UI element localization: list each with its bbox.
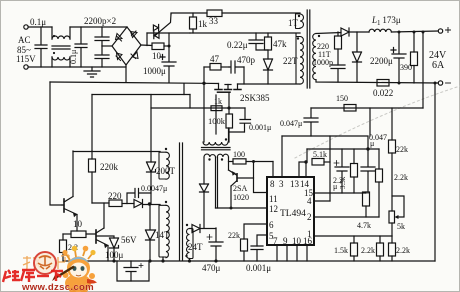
svg-text:7: 7 <box>273 236 278 246</box>
pin 14 wire <box>305 162 307 177</box>
capacitor 100u <box>117 261 149 281</box>
ground <box>84 67 100 77</box>
polarity dot choke top <box>53 35 55 37</box>
svg-text:2: 2 <box>307 212 312 222</box>
pin 8 wire <box>272 162 274 178</box>
svg-text:22k: 22k <box>396 145 408 154</box>
pin 3 wire <box>281 136 283 177</box>
wire gate drop <box>228 92 230 114</box>
wire cap midpoint to bridge <box>102 45 112 47</box>
diode lower (to bus) <box>146 204 156 240</box>
transformer T1 primary winding 1T <box>296 13 301 29</box>
transformer T2 secondary a <box>204 154 216 157</box>
riser x190 <box>189 95 191 109</box>
svg-text:100μ: 100μ <box>105 250 124 260</box>
output terminal minus <box>438 81 442 85</box>
wire y136 ref bus <box>282 136 368 149</box>
svg-text:0.001μ: 0.001μ <box>246 263 271 273</box>
svg-text:0.0047μ: 0.0047μ <box>141 184 167 193</box>
resistor 220 clamp <box>109 200 122 207</box>
bridge rectifier <box>112 27 141 65</box>
transformer T1 bottom core <box>180 143 183 260</box>
svg-text:10: 10 <box>152 51 162 61</box>
common-mode choke L <box>52 27 70 67</box>
transformer T1 winding 24T <box>187 229 190 259</box>
riser x184 <box>183 84 185 95</box>
bridge diode 1 <box>131 31 138 38</box>
wire top switching rail y13 <box>171 13 207 14</box>
wire output minus rail <box>377 82 438 85</box>
transformer T1 secondary 220-11T <box>313 34 316 80</box>
svg-text:2200μ: 2200μ <box>370 56 393 66</box>
svg-text:2SK385: 2SK385 <box>240 93 270 103</box>
capacitor 0.001u upper <box>240 108 251 132</box>
char yi <box>37 275 49 277</box>
wire x92 drop <box>91 95 93 152</box>
wire pin12 row <box>216 207 268 209</box>
transformer T2 core <box>202 148 231 150</box>
pin 2 wire <box>314 216 379 218</box>
wire source row y83 <box>50 82 219 84</box>
svg-text:2200p×2: 2200p×2 <box>84 16 116 26</box>
mascot hollow char pian <box>58 255 69 269</box>
resistor 0.022 shunt <box>377 80 389 87</box>
svg-text:4: 4 <box>307 196 312 206</box>
wire diac diagonal <box>155 14 172 36</box>
resistor 100k <box>226 114 233 128</box>
capacitor 470p <box>229 61 244 73</box>
transistor Q4 2SA1020 <box>236 174 238 181</box>
AC input terminal top <box>24 25 28 29</box>
capacitor 0.047u (right) <box>361 149 375 193</box>
polarity dot primary <box>298 15 300 17</box>
capacitor 0.1u second (vertical label) <box>75 27 87 67</box>
resistor 47 <box>210 64 221 71</box>
transformer T1 winding 14T <box>159 205 166 258</box>
bridge diode 4 <box>116 53 122 61</box>
svg-text:100k: 100k <box>208 116 226 126</box>
capacitor 0.047u (left) <box>304 108 318 136</box>
svg-text:L1 173μ: L1 173μ <box>371 15 401 27</box>
resistor 33 <box>207 10 222 17</box>
zener diode (47k clamp) <box>264 59 273 70</box>
svg-text:0.22μ: 0.22μ <box>227 40 248 50</box>
watermark red text weiku <box>3 270 63 282</box>
pin 6 wire / resistor 22k timing <box>244 224 267 239</box>
pot 5k <box>389 211 395 223</box>
bus junction dots <box>112 259 115 262</box>
transformer T1 primary winding 22T <box>296 33 300 83</box>
svg-text:1000p: 1000p <box>313 58 333 67</box>
svg-text:200T: 200T <box>156 166 176 176</box>
capacitor 2200u output <box>392 32 406 83</box>
resistor 5.1k <box>312 159 324 166</box>
resistor 10 (input) <box>152 43 164 50</box>
mascot hollow char zhao <box>23 256 40 270</box>
svg-text:μ: μ <box>333 182 337 191</box>
wire y94 bus <box>92 94 190 96</box>
svg-text:100: 100 <box>233 150 245 159</box>
svg-text:4.7k: 4.7k <box>357 221 371 230</box>
capacitor 470u <box>209 228 223 261</box>
svg-text:22k: 22k <box>228 231 240 240</box>
char xia <box>51 271 63 281</box>
wire x204 vertical <box>203 67 205 142</box>
svg-text:9: 9 <box>283 236 288 246</box>
mascot body <box>65 274 91 292</box>
transistor Q3 <box>95 230 97 243</box>
wire 24T diode to cap <box>200 228 216 230</box>
svg-text:3: 3 <box>279 179 284 189</box>
pin 15 wire / y193 bus <box>314 192 366 194</box>
resistor 4.7k <box>365 192 367 193</box>
svg-text:10: 10 <box>73 219 83 229</box>
transistor Q2 <box>63 199 65 212</box>
wire T2 sec right node <box>228 157 230 170</box>
resistor 150 <box>344 105 356 112</box>
svg-text:5.1k: 5.1k <box>313 150 327 159</box>
svg-text:μ: μ <box>370 139 374 148</box>
output terminal plus <box>438 29 442 33</box>
svg-text:150: 150 <box>336 94 348 103</box>
polarity dot choke bottom <box>53 52 55 54</box>
resistor 220k <box>91 151 93 159</box>
node pins 13-14 <box>304 160 307 163</box>
svg-text:220k: 220k <box>100 162 119 172</box>
polarity dot secondary <box>318 35 320 37</box>
resistor 1.5k <box>353 236 355 243</box>
svg-text:2.2k: 2.2k <box>394 173 408 182</box>
node 1000u top <box>168 45 171 48</box>
pin 1 wire <box>314 235 392 237</box>
diac loop wires <box>146 33 148 46</box>
resistor 47k <box>267 33 269 37</box>
wire T2 bottom link <box>229 131 244 133</box>
svg-text:6A: 6A <box>432 60 445 71</box>
wire bridge right to resistor <box>141 44 152 47</box>
svg-text:16: 16 <box>303 236 313 246</box>
svg-text:AC: AC <box>18 35 31 45</box>
bridge diode 3 <box>116 34 123 42</box>
wire y149 bus <box>307 148 379 150</box>
wire left return drop x50 <box>50 82 62 205</box>
svg-text:14T: 14T <box>155 230 170 240</box>
svg-text:1k: 1k <box>214 97 222 106</box>
diode T2 left <box>200 184 209 192</box>
wire x151 vertical <box>150 95 152 163</box>
wire y33 to transformer <box>190 32 300 34</box>
wire 14T bottom to bus <box>162 257 164 261</box>
wire minus return right edge <box>434 83 436 261</box>
svg-text:1020: 1020 <box>233 193 249 202</box>
transformer T2 secondary b <box>217 154 228 157</box>
resistor 100 <box>229 161 234 163</box>
polarity dots T1 <box>165 148 167 150</box>
capacitor 0.22u <box>249 33 268 50</box>
svg-text:TL494: TL494 <box>280 209 306 219</box>
rectifier diode output <box>341 28 349 36</box>
transformer T1 top core <box>307 10 310 88</box>
polarity dots T2 <box>225 138 227 140</box>
transistor Q1 2SK385 <box>219 84 238 90</box>
wire x330 deadtime <box>329 136 331 201</box>
svg-text:2.2k: 2.2k <box>361 246 375 255</box>
node source junction <box>202 82 205 85</box>
wire top rail <box>28 26 52 28</box>
resistor 2.2k a <box>379 236 381 243</box>
svg-text:47: 47 <box>210 54 220 64</box>
node gate junction <box>227 106 230 109</box>
IC U1 pin number labels <box>269 179 314 246</box>
zener diode (deg) <box>147 162 156 172</box>
svg-text:0.047μ: 0.047μ <box>280 119 302 128</box>
svg-text:1.5k: 1.5k <box>334 246 348 255</box>
diode clamp <box>134 200 143 208</box>
svg-text:5k: 5k <box>397 222 405 231</box>
capacitor 2200p upper <box>95 27 109 46</box>
wire bottom rail <box>28 66 126 68</box>
wire secondary bottom lead <box>316 80 377 83</box>
svg-text:470p: 470p <box>237 55 256 65</box>
svg-text:0.1μ: 0.1μ <box>30 17 46 27</box>
bridge diode 2 <box>131 52 138 59</box>
zener 56V <box>110 238 119 248</box>
svg-text:0.022: 0.022 <box>373 88 393 98</box>
svg-text:56V: 56V <box>121 235 137 245</box>
wire snubber row y67 <box>204 66 210 68</box>
svg-text:6: 6 <box>269 220 274 230</box>
wire 24T bottom <box>189 259 191 262</box>
svg-text:33: 33 <box>209 16 219 26</box>
svg-text:3.3k: 3.3k <box>339 176 347 189</box>
wire y33 <box>147 32 190 34</box>
svg-text:47k: 47k <box>273 39 287 49</box>
watermark arc (faint dotted) <box>295 86 460 158</box>
svg-text:24T: 24T <box>188 242 203 252</box>
svg-text:1T: 1T <box>288 18 299 28</box>
inductor L1 173u <box>369 29 391 32</box>
wire x370 drop <box>369 108 371 136</box>
node 0.047 junction <box>366 147 369 150</box>
capacitor 0.0047u <box>127 189 151 205</box>
surge suppressor diac <box>153 25 159 39</box>
resistor fb 2.2k <box>378 149 380 169</box>
svg-text:0.001μ: 0.001μ <box>249 123 271 132</box>
svg-text:390: 390 <box>400 63 412 72</box>
resistor 390 <box>413 32 415 52</box>
svg-text:8: 8 <box>270 179 275 189</box>
resistor 1k gate <box>211 106 222 111</box>
char wei <box>3 270 20 282</box>
wire q3 base zener <box>96 236 114 238</box>
capacitor 2.2u soft <box>335 149 349 193</box>
svg-text:220: 220 <box>108 191 122 201</box>
resistor 3.3k <box>353 149 355 164</box>
svg-text:0.1μ: 0.1μ <box>69 50 78 64</box>
transformer T1 winding 200T <box>159 152 166 180</box>
capacitor 2200p lower <box>95 46 109 67</box>
node clamp junction <box>148 202 151 205</box>
wire output plus rail <box>392 31 439 32</box>
resistor 220 damper <box>337 32 339 36</box>
diode 24T rectifier <box>190 225 201 233</box>
wire secondary top lead <box>316 33 341 34</box>
svg-text:11: 11 <box>269 194 278 204</box>
bottom ground bus <box>63 260 435 262</box>
capacitor 1000p damper <box>331 65 345 82</box>
wire x392 divider <box>391 108 393 140</box>
svg-text:1000μ: 1000μ <box>143 66 166 76</box>
IC U1 TL494 <box>267 177 314 245</box>
transformer T2 drive primary <box>203 142 228 145</box>
watermark mascot <box>3 246 97 292</box>
wire T2 sec left drop / diode <box>203 157 205 184</box>
wire drain row y84 <box>238 83 301 85</box>
resistor 22k (divider) <box>389 140 396 153</box>
freewheel diode <box>353 32 362 82</box>
wire base bus to pin11 <box>254 162 268 193</box>
pin 4 wire <box>314 200 330 202</box>
resistor 1k snubber <box>192 13 194 17</box>
capacitor 0.1u input <box>35 27 47 67</box>
svg-text:2SA: 2SA <box>233 184 247 193</box>
char ku <box>21 270 35 282</box>
pin 5 wire / capacitor 0.001u timing <box>257 235 267 246</box>
mascot hands <box>63 272 69 278</box>
wire feedback sense <box>422 32 424 108</box>
mascot stamp head <box>34 252 56 274</box>
resistor 2.2k b <box>391 236 393 243</box>
mascot crown <box>66 250 92 260</box>
pin 7,9,10,16 wires <box>276 245 278 261</box>
svg-text:1k: 1k <box>198 19 208 29</box>
resistor 2.2 <box>62 234 64 240</box>
svg-text:12: 12 <box>269 204 278 214</box>
wire clamp to 14T top <box>143 204 161 206</box>
resistor 10 (bias) <box>63 233 71 235</box>
mascot brush <box>56 267 74 278</box>
wire gate network row y108 <box>151 107 245 109</box>
svg-text:10: 10 <box>292 236 302 246</box>
wire y203 clamp row <box>92 202 109 204</box>
svg-text:115V: 115V <box>16 54 36 64</box>
wire snubber to drain <box>243 67 245 84</box>
svg-text:13: 13 <box>290 179 300 189</box>
svg-text:22T: 22T <box>283 56 298 66</box>
wire T2 sec inner drops <box>215 157 217 208</box>
svg-text:www.dzsc.com: www.dzsc.com <box>21 282 94 292</box>
polarity dot primary 22T <box>297 37 299 39</box>
AC input terminal bottom <box>24 65 28 69</box>
node dots output rails <box>398 31 401 34</box>
wire y151 feedback winding top <box>73 151 160 153</box>
wire y108 right sense <box>311 107 423 109</box>
mascot head <box>67 257 90 280</box>
svg-text:470μ: 470μ <box>202 263 221 273</box>
pin 13 wire <box>299 162 306 177</box>
svg-text:2.2k: 2.2k <box>396 246 410 255</box>
wire top rail cont <box>70 26 127 28</box>
wire bridge bottom to return <box>125 65 127 82</box>
wire y95 drop <box>215 95 217 134</box>
capacitor 1000u <box>162 46 176 82</box>
